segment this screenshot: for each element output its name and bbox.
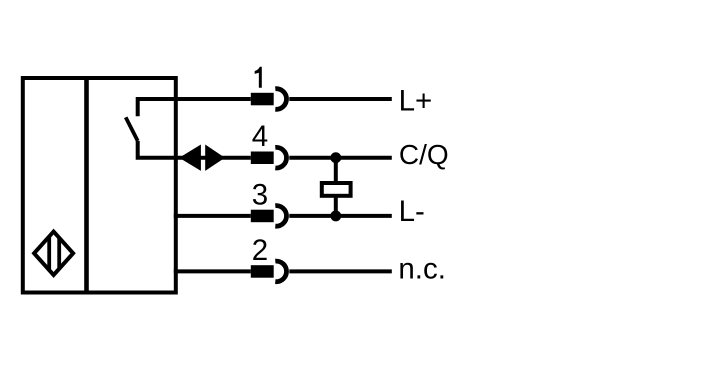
proximity sensor symbol (diamond): [34, 232, 73, 275]
switch blade: [126, 117, 138, 141]
svg-text:C/Q: C/Q: [399, 139, 449, 170]
junction dot on wire 3: [330, 210, 341, 221]
wire 3: [174, 214, 251, 218]
svg-text:L-: L-: [399, 195, 425, 228]
bidirectional arrow left triangle: [179, 145, 201, 171]
pin 3 socket arc: [275, 206, 286, 227]
pin 1 label: [255, 67, 262, 88]
switch lower terminal + wire 4: [138, 141, 251, 158]
svg-text:3: 3: [252, 179, 268, 212]
pin 1 socket arc: [275, 89, 286, 110]
pin 1 output wire: [289, 97, 392, 101]
diamond inner bar left: [47, 228, 51, 279]
load resistor vertical wire: [334, 158, 338, 216]
pin 4 output wire: [289, 156, 392, 160]
switch contact Q: fixed terminal + wire 1: [138, 99, 251, 116]
pin 4 socket arc: [275, 147, 286, 168]
pin 3 output wire: [289, 214, 392, 218]
pin 4 block: [251, 152, 274, 165]
junction dot on wire 4: [330, 152, 341, 163]
svg-text:n.c.: n.c.: [398, 252, 446, 285]
pin 2 block: [251, 265, 274, 278]
load resistor R: [322, 183, 351, 196]
pin 1 block: [251, 93, 274, 106]
sensor body outline: [23, 78, 176, 293]
sensor body divider: [84, 78, 89, 293]
svg-text:L+: L+: [399, 84, 433, 117]
pin 2 output wire: [289, 269, 392, 273]
wire 2: [174, 269, 251, 273]
pin 3 block: [251, 210, 274, 223]
pin 2 socket arc: [275, 261, 286, 282]
diamond inner bar right: [57, 228, 61, 279]
svg-text:2: 2: [252, 234, 268, 267]
bidirectional arrow right triangle: [205, 145, 225, 171]
svg-text:4: 4: [252, 120, 268, 153]
